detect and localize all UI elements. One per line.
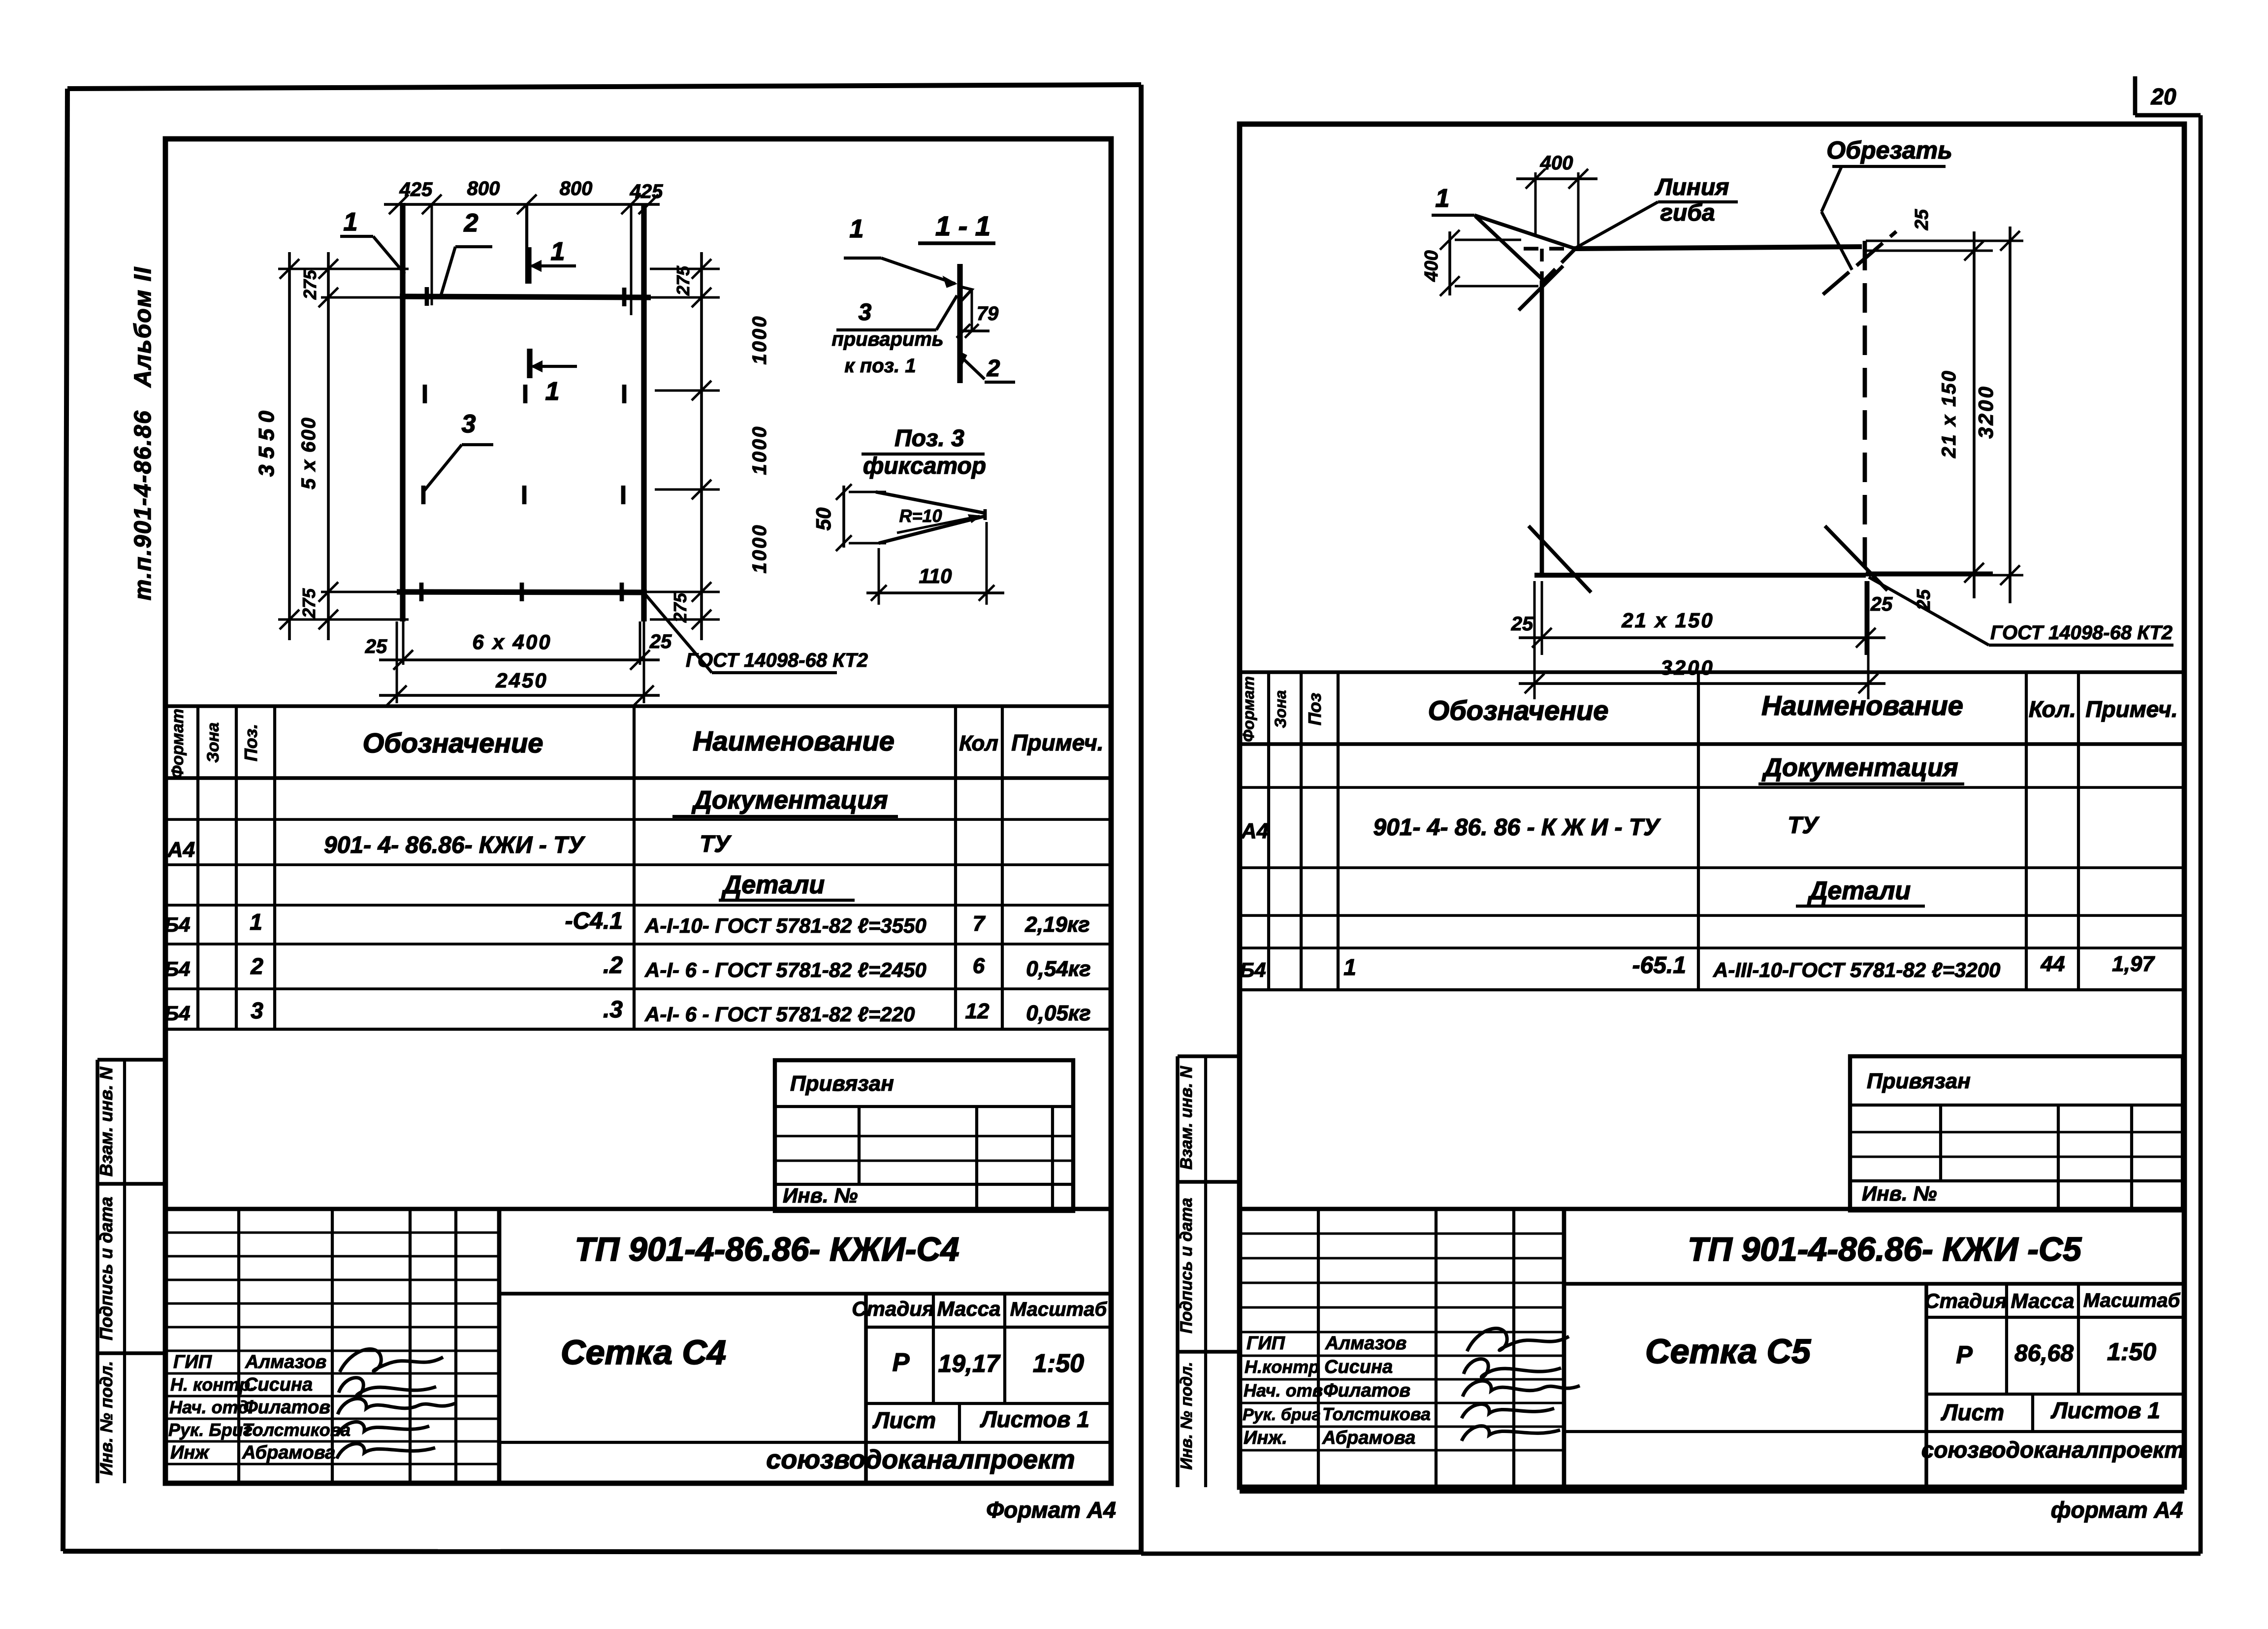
svg-text:25: 25: [1912, 209, 1932, 230]
signatures squiggles: [337, 1349, 455, 1459]
svg-text:2,19кг: 2,19кг: [1024, 912, 1089, 937]
svg-text:Стадия: Стадия: [852, 1297, 934, 1320]
svg-text:3200: 3200: [1974, 385, 1997, 438]
svg-text:Сетка С4: Сетка С4: [561, 1333, 726, 1371]
svg-text:Формат: Формат: [1240, 676, 1257, 742]
liniya giba label: [1573, 174, 1738, 249]
dim 50: [812, 484, 886, 551]
mesh C5 right edge bend line: [1863, 241, 1867, 577]
svg-text:ТП 901-4-86.86- КЖИ -С5: ТП 901-4-86.86- КЖИ -С5: [1688, 1231, 2082, 1268]
fold corner dashes: [1524, 249, 1573, 281]
svg-text:Примеч.: Примеч.: [2085, 696, 2177, 722]
svg-text:Стадия: Стадия: [1924, 1289, 2007, 1312]
right row dokumentaciya: [1758, 753, 1964, 784]
top-right corner slash: [1823, 231, 1896, 294]
svg-text:.2: .2: [603, 952, 623, 978]
svg-text:425: 425: [399, 179, 433, 200]
leader label 3: [424, 410, 493, 490]
svg-text:ТП 901-4-86.86- КЖИ-С4: ТП 901-4-86.86- КЖИ-С4: [575, 1231, 959, 1268]
svg-text:Сисина: Сисина: [244, 1374, 313, 1395]
svg-text:5 х 600: 5 х 600: [298, 417, 319, 489]
svg-text:Лист: Лист: [872, 1407, 936, 1433]
svg-text:приварить: приварить: [831, 328, 943, 350]
svg-text:Формат: Формат: [168, 709, 187, 779]
GOST weld callout left: [645, 594, 868, 673]
right sheet drawing frame: [1240, 124, 2184, 1487]
top-left corner slash: [1519, 266, 1563, 310]
svg-text:901- 4- 86.86- КЖИ - ТУ: 901- 4- 86.86- КЖИ - ТУ: [324, 832, 585, 858]
svg-text:Обрезать: Обрезать: [1826, 136, 1952, 164]
left title block frame: [165, 1209, 1111, 1483]
section bar pos.1: [957, 264, 962, 383]
svg-text:Листов 1: Листов 1: [2050, 1398, 2160, 1423]
svg-text:3: 3: [251, 998, 263, 1023]
right signature titles: [1243, 1333, 1323, 1448]
right signatures squiggles: [1462, 1329, 1580, 1441]
right row detali: [1796, 877, 1925, 906]
svg-text:12: 12: [965, 999, 990, 1023]
svg-text:0,54кг: 0,54кг: [1026, 957, 1090, 981]
svg-text:Кол.: Кол.: [2029, 696, 2076, 722]
svg-text:21 х 150: 21 х 150: [1621, 609, 1714, 632]
left table row dokumentaciya: [672, 786, 898, 816]
svg-text:Привязан: Привязан: [1867, 1069, 1971, 1093]
obrezat label: [1821, 136, 1952, 270]
mesh C5 top edge: [1573, 247, 1862, 249]
svg-text:ГОСТ 14098-68 КТ2: ГОСТ 14098-68 КТ2: [686, 650, 868, 671]
svg-text:Абрамова: Абрамова: [242, 1442, 335, 1463]
svg-text:Р: Р: [893, 1348, 910, 1377]
svg-text:Инв. №: Инв. №: [783, 1184, 858, 1207]
svg-text:гиба: гиба: [1660, 200, 1715, 226]
mesh C5 bottom edge: [1534, 573, 1866, 578]
svg-text:-С4.1: -С4.1: [565, 908, 623, 934]
svg-text:Инж: Инж: [170, 1442, 210, 1463]
svg-text:25: 25: [365, 636, 387, 657]
svg-text:Детали: Детали: [721, 871, 825, 899]
svg-text:3550: 3550: [255, 405, 279, 477]
svg-text:Б4: Б4: [164, 913, 190, 936]
svg-text:А4: А4: [167, 838, 195, 862]
svg-text:Примеч.: Примеч.: [1011, 730, 1103, 755]
left table detail row 2: [164, 952, 1090, 981]
svg-text:50: 50: [812, 508, 835, 531]
svg-text:Масштаб: Масштаб: [1010, 1299, 1108, 1320]
svg-text:Толстикова: Толстикова: [242, 1420, 351, 1440]
svg-text:86,68: 86,68: [2014, 1340, 2074, 1367]
right privyazan box: [1850, 1056, 2183, 1210]
dim 110: [866, 522, 1004, 605]
left margin strip boxes: [97, 1060, 165, 1483]
section leader 1: [844, 215, 955, 287]
svg-text:Инв. №: Инв. №: [1862, 1182, 1937, 1205]
svg-text:Детали: Детали: [1807, 877, 1911, 905]
svg-text:Лист: Лист: [1941, 1400, 2004, 1425]
bottom dim 6x400: [365, 621, 672, 703]
svg-text:400: 400: [1540, 152, 1573, 174]
svg-text:ГИП: ГИП: [173, 1352, 212, 1372]
svg-text:Инв. № подл.: Инв. № подл.: [97, 1361, 116, 1476]
left spec table grid: [165, 706, 1111, 1029]
svg-text:Зона: Зона: [204, 722, 223, 763]
svg-text:Поз: Поз: [1305, 693, 1325, 725]
svg-text:Линия: Линия: [1655, 174, 1729, 200]
svg-text:Взам. инв. N: Взам. инв. N: [1177, 1065, 1196, 1170]
right title block frame: [1240, 1209, 2184, 1491]
svg-text:901- 4- 86. 86 - К Ж И - ТУ: 901- 4- 86. 86 - К Ж И - ТУ: [1373, 814, 1661, 841]
svg-text:20: 20: [2150, 84, 2176, 109]
svg-text:Н.контр: Н.контр: [1245, 1357, 1319, 1377]
svg-text:Поз.: Поз.: [241, 724, 261, 761]
svg-text:Масса: Масса: [937, 1297, 1001, 1320]
svg-text:21 х 150: 21 х 150: [1938, 369, 1960, 458]
mesh C4 horizontal bar pos.2 bottom: [397, 592, 647, 592]
right sig rows: [1240, 1234, 1564, 1450]
svg-text:Масштаб: Масштаб: [2083, 1290, 2181, 1311]
list row: [499, 1403, 1111, 1442]
svg-text:1: 1: [850, 215, 864, 243]
svg-text:2450: 2450: [495, 669, 547, 692]
svg-text:Рук. Бриг: Рук. Бриг: [168, 1420, 253, 1440]
svg-text:6 х 400: 6 х 400: [472, 630, 551, 653]
svg-text:Инж.: Инж.: [1244, 1428, 1287, 1448]
svg-text:Нач. отд.: Нач. отд.: [169, 1397, 254, 1417]
leader label 1: [340, 208, 405, 274]
svg-text:0,05кг: 0,05кг: [1026, 1001, 1090, 1025]
svg-text:6: 6: [973, 954, 985, 978]
svg-text:1:50: 1:50: [1033, 1349, 1084, 1378]
mesh C5 left edge: [1540, 281, 1544, 575]
svg-text:т.п.901-4-86.86 Альбом II: т.п.901-4-86.86 Альбом II: [130, 266, 156, 601]
svg-text:1 - 1: 1 - 1: [935, 210, 990, 241]
right sheet outer border: [1141, 76, 2201, 1554]
svg-text:ТУ: ТУ: [700, 831, 732, 857]
svg-text:1: 1: [1436, 184, 1450, 213]
svg-text:2: 2: [250, 953, 263, 979]
right chain 275/1000/1000/1000/275: [647, 252, 770, 640]
svg-text:Б4: Б4: [164, 1002, 190, 1025]
svg-text:-65.1: -65.1: [1632, 952, 1686, 978]
mesh C4 vertical bar pos.1 right: [641, 204, 646, 621]
label 1 right sheet: [1432, 184, 1474, 215]
svg-text:25: 25: [1511, 613, 1533, 635]
svg-text:Кол: Кол: [959, 731, 998, 755]
mesh C4 horizontal bar pos.2 top: [400, 296, 651, 297]
right chains 21x150 3200: [1866, 209, 2023, 611]
section mark 1 middle: [530, 349, 577, 406]
section 1-1 title: [918, 210, 995, 243]
label 2 on section: [960, 353, 1015, 382]
stadiya values: [893, 1348, 1084, 1378]
mesh C4 vertical bar pos.1 left: [400, 203, 405, 621]
right stadiya values: [1956, 1338, 2156, 1368]
svg-text:1000: 1000: [749, 425, 770, 475]
svg-text:425: 425: [630, 181, 663, 202]
svg-text:7: 7: [973, 912, 986, 936]
svg-text:275: 275: [299, 588, 319, 619]
svg-text:Алмазов: Алмазов: [245, 1352, 326, 1372]
svg-text:1: 1: [344, 208, 358, 236]
bottom dim 2450: [379, 669, 660, 705]
svg-text:79: 79: [977, 303, 999, 325]
right row A4 TU: [1241, 813, 1820, 843]
svg-text:Сетка С5: Сетка С5: [1645, 1332, 1811, 1370]
svg-text:Филатов: Филатов: [243, 1397, 330, 1418]
svg-text:Листов 1: Листов 1: [980, 1406, 1089, 1432]
left table row A4 TU: [167, 831, 732, 862]
svg-text:Р: Р: [1956, 1341, 1973, 1368]
left privyazan box: [775, 1060, 1073, 1211]
svg-text:союзводоканалпроект: союзводоканалпроект: [1921, 1437, 2184, 1463]
dim 3550: [255, 252, 299, 640]
svg-text:Толстикова: Толстикова: [1322, 1404, 1431, 1424]
svg-text:Наименование: Наименование: [1761, 690, 1963, 721]
svg-text:к поз. 1: к поз. 1: [844, 355, 916, 377]
svg-text:фиксатор: фиксатор: [863, 453, 986, 479]
svg-text:110: 110: [919, 564, 952, 587]
svg-text:Филатов: Филатов: [1323, 1380, 1410, 1401]
top dim chain: [384, 195, 660, 315]
svg-text:А4: А4: [1241, 819, 1269, 843]
svg-text:А-I- 6 - ГОСТ 5781-82 ℓ=2450: А-I- 6 - ГОСТ 5781-82 ℓ=2450: [644, 958, 926, 981]
svg-text:Нач. отв: Нач. отв: [1244, 1380, 1323, 1401]
svg-text:А-I- 6 - ГОСТ 5781-82 ℓ=220: А-I- 6 - ГОСТ 5781-82 ℓ=220: [644, 1003, 915, 1026]
svg-text:3200: 3200: [1661, 656, 1714, 679]
fixator wedge: [876, 492, 985, 543]
bottom dims right sheet: [1511, 581, 1893, 699]
svg-text:800: 800: [467, 178, 500, 199]
svg-text:Рук. бриг: Рук. бриг: [1243, 1405, 1320, 1424]
svg-text:ТУ: ТУ: [1788, 813, 1820, 839]
svg-text:формат А4: формат А4: [2051, 1497, 2183, 1523]
bottom-left corner slash: [1529, 526, 1591, 592]
svg-text:ГОСТ 14098-68 КТ2: ГОСТ 14098-68 КТ2: [1990, 622, 2172, 644]
svg-text:1: 1: [1343, 954, 1356, 980]
dim 400 top: [1516, 152, 1597, 249]
svg-text:25: 25: [649, 631, 672, 652]
right detail row: [1240, 952, 2155, 981]
bottom-right corner slash: [1825, 526, 1887, 590]
svg-text:2: 2: [464, 209, 479, 237]
fixator triangle: [960, 287, 972, 302]
fixator ticks pos.3 grid: [421, 287, 624, 601]
left title block sig rows: [165, 1233, 499, 1464]
poz.3 title: [862, 425, 986, 479]
right spec table grid: [1240, 672, 2184, 990]
section mark 1 top: [527, 204, 576, 284]
leader label 2: [441, 209, 492, 296]
left table detail row 3: [164, 997, 1090, 1026]
svg-text:Документация: Документация: [1761, 753, 1958, 782]
svg-text:3: 3: [462, 410, 476, 438]
svg-text:19,17: 19,17: [938, 1350, 1000, 1377]
svg-text:Б4: Б4: [1240, 958, 1266, 981]
svg-text:800: 800: [560, 178, 593, 199]
svg-text:1,97: 1,97: [2112, 952, 2155, 976]
svg-text:Н. контр.: Н. контр.: [170, 1374, 255, 1395]
left sheet outer border: [63, 85, 1141, 1552]
svg-text:400: 400: [1421, 250, 1442, 282]
svg-text:3: 3: [859, 299, 872, 326]
svg-text:2: 2: [987, 356, 1000, 382]
svg-text:.3: .3: [603, 997, 623, 1023]
svg-text:Зона: Зона: [1272, 690, 1289, 728]
svg-text:Обозначение: Обозначение: [1428, 695, 1609, 726]
fold flap: [1474, 215, 1575, 282]
svg-text:А-I-10- ГОСТ 5781-82 ℓ=3550: А-I-10- ГОСТ 5781-82 ℓ=3550: [644, 914, 926, 937]
svg-text:Б4: Б4: [164, 957, 190, 980]
svg-text:Масса: Масса: [2011, 1289, 2075, 1312]
svg-text:275: 275: [300, 269, 320, 300]
svg-text:Взам. инв. N: Взам. инв. N: [96, 1067, 116, 1177]
svg-text:1: 1: [250, 909, 262, 935]
svg-text:А-III-10-ГОСТ 5781-82 ℓ=3200: А-III-10-ГОСТ 5781-82 ℓ=3200: [1713, 958, 2000, 981]
svg-text:25: 25: [1870, 593, 1893, 615]
GOST weld callout right: [1869, 577, 2173, 645]
R=10 label: [897, 506, 980, 533]
svg-text:Формат А4: Формат А4: [986, 1497, 1116, 1523]
svg-text:1: 1: [551, 237, 565, 266]
signature titles: [168, 1352, 255, 1463]
svg-text:Сисина: Сисина: [1324, 1357, 1393, 1377]
dim 400 left: [1421, 230, 1538, 296]
svg-text:Абрамова: Абрамова: [1322, 1428, 1415, 1448]
right margin strip: [1178, 1056, 1240, 1487]
svg-text:Алмазов: Алмазов: [1325, 1333, 1406, 1354]
svg-text:Подпись и дата: Подпись и дата: [1177, 1198, 1196, 1334]
svg-text:Документация: Документация: [691, 786, 888, 814]
svg-text:Обозначение: Обозначение: [363, 727, 543, 758]
weld label 3: [831, 295, 957, 377]
right list row: [1564, 1394, 2184, 1432]
svg-text:Инв. № подл.: Инв. № подл.: [1177, 1362, 1195, 1469]
right stadiya block: [1564, 1284, 2184, 1491]
left chain 275/5x600/275: [278, 252, 409, 640]
svg-text:R=10: R=10: [899, 506, 942, 526]
svg-text:1: 1: [545, 377, 560, 406]
signature names: [242, 1352, 351, 1463]
stadiya header row: [499, 1294, 1111, 1483]
left table detail row 1: [164, 908, 1089, 937]
left table row detali: [719, 871, 855, 900]
right signature names: [1322, 1333, 1431, 1448]
svg-text:Привязан: Привязан: [790, 1072, 894, 1096]
svg-text:Подпись и дата: Подпись и дата: [96, 1197, 116, 1340]
svg-text:Наименование: Наименование: [693, 725, 894, 756]
svg-text:1000: 1000: [749, 315, 770, 365]
dim 79: [957, 290, 999, 338]
svg-text:Поз. 3: Поз. 3: [894, 425, 964, 452]
svg-text:1000: 1000: [749, 524, 770, 574]
left sheet drawing frame: [165, 139, 1111, 1483]
svg-text:1:50: 1:50: [2107, 1338, 2156, 1366]
svg-text:ГИП: ГИП: [1246, 1333, 1285, 1354]
svg-text:44: 44: [2041, 952, 2065, 976]
svg-text:союзводоканалпроект: союзводоканалпроект: [766, 1445, 1075, 1474]
